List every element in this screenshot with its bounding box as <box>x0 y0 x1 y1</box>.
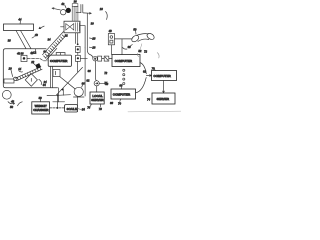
svg-text:20: 20 <box>8 67 12 71</box>
merge wire from computer1 <box>140 63 146 74</box>
motor circle <box>93 56 98 61</box>
merge wire from computer2 <box>136 78 147 93</box>
chute cap <box>74 5 78 7</box>
lead 78 <box>100 104 102 107</box>
s-curve wire to motor <box>87 50 93 58</box>
wire sensor box to computer (dashed) <box>27 58 48 60</box>
wire horizontal at scale level <box>47 94 71 97</box>
chute above sensor <box>72 6 78 21</box>
flag pole <box>62 89 64 96</box>
small square A <box>98 56 102 61</box>
rotation arrow under wheel <box>8 102 15 105</box>
svg-text:66: 66 <box>82 82 85 86</box>
label 54 <box>78 108 81 111</box>
motor mark <box>94 58 96 60</box>
svg-text:CHANGER: CHANGER <box>33 108 49 112</box>
server box <box>152 93 175 104</box>
rotation arrow right of diamond <box>39 79 42 84</box>
svg-text:64: 64 <box>43 49 46 53</box>
wire computer3 to server <box>163 81 165 93</box>
svg-text:62: 62 <box>143 69 146 73</box>
jack inner square <box>110 40 113 43</box>
chute cross bar <box>76 12 81 14</box>
dot in stack box 2 <box>77 57 79 59</box>
arrow 28 <box>90 37 93 40</box>
svg-text:72: 72 <box>104 71 107 75</box>
wire motor to node <box>96 61 97 81</box>
svg-text:COMPUTER: COMPUTER <box>50 59 68 63</box>
wire into sensor left <box>61 26 65 28</box>
svg-text:48: 48 <box>11 100 14 104</box>
tick inside diamond <box>30 78 32 81</box>
merge arrow <box>146 75 151 77</box>
right vertical wire 2 <box>86 13 88 49</box>
tick 50 <box>135 31 137 34</box>
svg-text:70: 70 <box>118 102 121 106</box>
detector triangle <box>70 24 74 30</box>
svg-text:40: 40 <box>61 2 64 6</box>
ramp hatch <box>44 35 65 58</box>
wire weight changer to scale <box>50 107 65 109</box>
computer box 3 <box>152 71 177 81</box>
feed wheel open circle <box>61 10 66 15</box>
lead below computer2 <box>119 99 122 102</box>
wires computer down pair <box>50 66 52 87</box>
wire sensor to right chute <box>80 25 85 27</box>
lead 76 <box>90 104 91 106</box>
svg-text:36: 36 <box>74 0 77 3</box>
curl 64 <box>137 53 138 56</box>
svg-text:SCALE: SCALE <box>67 107 77 111</box>
conveyor belt lower line <box>17 69 42 81</box>
arrow to feed wheel <box>52 8 60 10</box>
link A-B <box>102 58 105 60</box>
tick 56 <box>40 99 42 102</box>
side wire <box>84 48 86 96</box>
svg-text:52: 52 <box>138 49 141 53</box>
computer box 1 <box>112 55 140 67</box>
feed roller filled circle <box>66 8 71 13</box>
svg-text:34: 34 <box>48 37 51 41</box>
sensor bars <box>76 23 80 32</box>
travel arrow into sensor <box>39 26 44 29</box>
stub up 2 <box>64 53 66 55</box>
local server box <box>90 92 104 104</box>
flag <box>61 88 64 90</box>
node inner mark <box>96 83 98 85</box>
svg-text:38: 38 <box>8 39 11 43</box>
svg-text:14: 14 <box>18 67 21 71</box>
node stub right <box>99 82 104 84</box>
stack dot box 1 <box>76 46 81 52</box>
chute below sensor <box>75 33 77 44</box>
mark in printer box <box>55 71 57 75</box>
svg-text:30: 30 <box>91 21 94 25</box>
wire jack to handset <box>115 38 133 40</box>
faint scan line bottom right <box>128 110 181 113</box>
diverter diamond <box>25 74 37 87</box>
svg-text:48: 48 <box>109 29 112 33</box>
wire B to computer1 <box>109 58 112 60</box>
big diagonal wire <box>56 67 82 95</box>
svg-text:COMPUTER: COMPUTER <box>115 59 133 63</box>
computer box 2 <box>111 89 136 99</box>
sensor dot box <box>21 55 27 61</box>
svg-text:10: 10 <box>100 7 103 11</box>
node dot in sensor box <box>23 57 26 60</box>
svg-text:32: 32 <box>65 34 68 38</box>
dot in stack box 1 <box>77 48 79 50</box>
small printer box <box>53 70 60 77</box>
svg-text:22: 22 <box>30 60 34 64</box>
junction dot scale <box>57 94 59 96</box>
entry arrow right <box>83 13 91 15</box>
tick 66b <box>82 85 83 87</box>
svg-text:64: 64 <box>43 83 46 87</box>
belt roller left <box>14 77 17 80</box>
node circle with dot <box>94 81 99 86</box>
svg-text:50: 50 <box>133 28 136 32</box>
output wheel circle <box>2 90 11 99</box>
ramp to sensor upper line <box>42 32 63 55</box>
sensor station box <box>64 21 80 33</box>
weight changer box <box>32 102 50 114</box>
svg-text:COMPUTER: COMPUTER <box>113 93 131 97</box>
bin stem <box>77 97 79 105</box>
svg-text:78: 78 <box>99 107 102 111</box>
svg-text:50: 50 <box>10 105 13 109</box>
link stack boxes <box>77 52 79 55</box>
svg-text:74: 74 <box>104 81 107 85</box>
ellipsis dots <box>123 69 125 71</box>
tray chute leg right <box>21 31 32 49</box>
wire drop to computer1 <box>111 39 122 55</box>
tray chute leg left <box>16 31 26 49</box>
wire tick from 44 to tray <box>19 21 21 24</box>
junction dot wc <box>56 107 58 109</box>
feeder tray <box>4 24 34 31</box>
drop line to platform <box>58 88 60 102</box>
svg-text:68: 68 <box>110 101 113 105</box>
enclosure <box>3 49 57 88</box>
curl right <box>157 53 159 58</box>
ramp to sensor lower line <box>45 35 66 58</box>
wire below stack box2 <box>77 61 79 71</box>
svg-text:74: 74 <box>147 97 150 101</box>
tick 70b <box>154 69 157 72</box>
conveyor belt upper line <box>15 67 41 78</box>
scale platform <box>53 101 65 103</box>
right vertical wire <box>84 26 86 48</box>
telephone handset <box>131 32 156 43</box>
phone jack box <box>108 34 114 45</box>
chute printer to bin <box>60 77 75 89</box>
svg-text:SERVER: SERVER <box>91 98 104 102</box>
pointer curve 10 <box>106 12 108 20</box>
bin stem <box>73 96 84 98</box>
small curve arrow near weight changer <box>18 102 23 106</box>
arrow 26 <box>89 46 92 48</box>
svg-text:COMPUTER: COMPUTER <box>153 74 171 78</box>
wire stack box2 right <box>80 57 87 59</box>
arrow from 46 to chute <box>32 37 35 39</box>
chute top cap box <box>72 4 78 7</box>
svg-text:72: 72 <box>144 50 147 54</box>
handset lead arrow <box>129 44 132 47</box>
small square B <box>104 56 109 61</box>
svg-text:60: 60 <box>88 69 91 73</box>
wire node to local server <box>96 86 98 92</box>
stub up 1 <box>55 53 57 55</box>
stack dot box 2 <box>76 55 81 61</box>
right chute pair top <box>81 5 83 13</box>
svg-text:62: 62 <box>86 79 89 83</box>
svg-text:54: 54 <box>82 108 85 112</box>
computer box center <box>48 55 71 66</box>
svg-text:36: 36 <box>21 52 24 56</box>
svg-text:SERVER: SERVER <box>157 97 170 101</box>
svg-text:42: 42 <box>30 51 33 55</box>
ramp support line <box>47 48 57 59</box>
scale box <box>65 105 78 112</box>
bin circle <box>74 87 83 96</box>
tick 40a <box>65 5 66 8</box>
wire junction up from weight changer <box>56 95 58 108</box>
curve 68 <box>123 48 127 50</box>
jack inner circle <box>110 36 113 39</box>
svg-text:46: 46 <box>35 33 38 37</box>
motor box left <box>4 79 14 83</box>
node tick 12 <box>35 49 38 54</box>
emitter triangle <box>66 24 70 30</box>
junction dot <box>77 43 79 45</box>
belt hatch <box>17 67 41 80</box>
item on belt (black) <box>35 63 41 69</box>
